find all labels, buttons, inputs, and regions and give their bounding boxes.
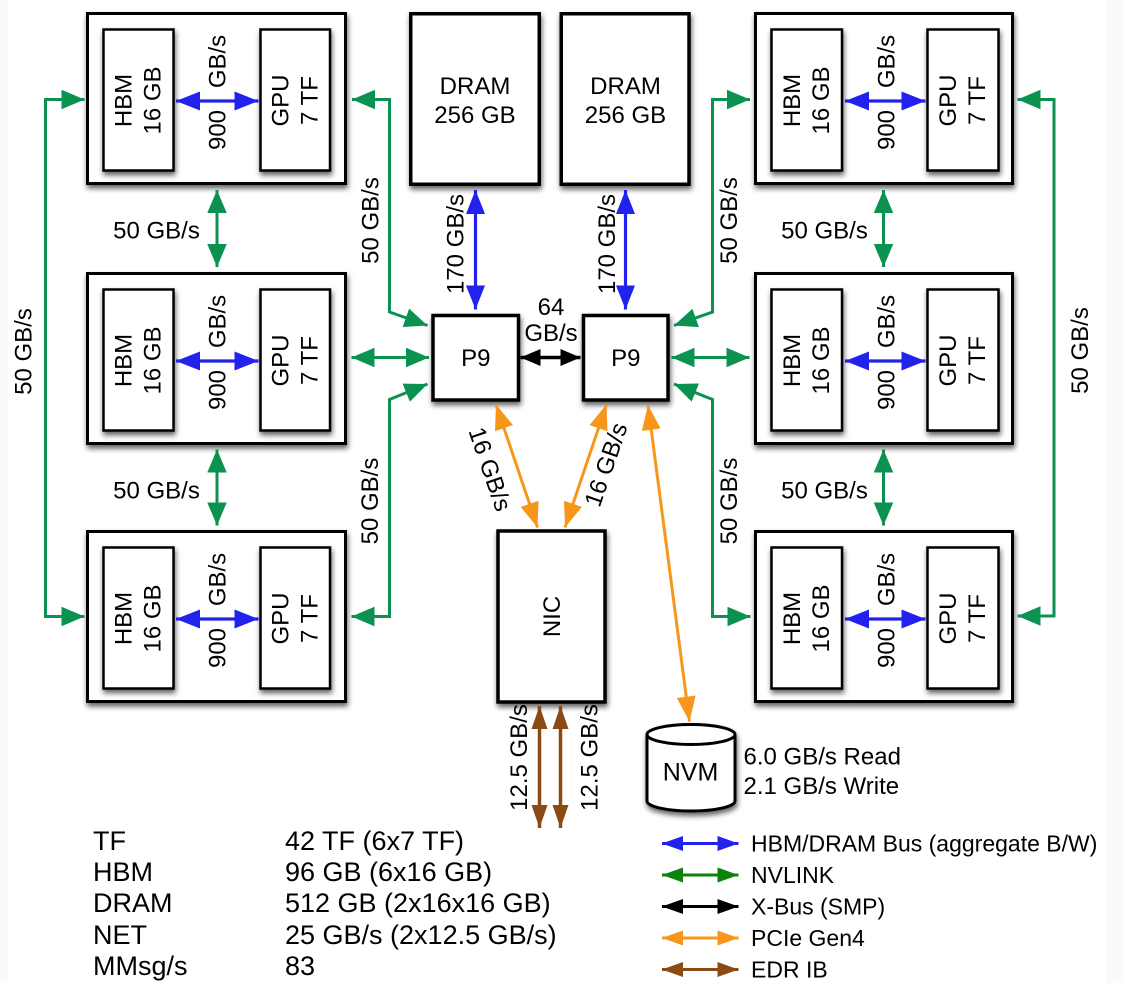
svg-text:DRAM: DRAM (93, 888, 173, 918)
svg-text:6.0 GB/s Read: 6.0 GB/s Read (744, 744, 901, 771)
svg-text:256 GB: 256 GB (585, 102, 666, 129)
svg-text:P9: P9 (461, 345, 490, 372)
svg-text:50 GB/s: 50 GB/s (716, 458, 743, 545)
svg-text:50 GB/s: 50 GB/s (357, 458, 384, 545)
svg-text:2.1 GB/s Write: 2.1 GB/s Write (744, 773, 900, 800)
svg-text:7 TF: 7 TF (296, 336, 323, 385)
svg-text:256 GB: 256 GB (434, 102, 515, 129)
svg-text:HBM: HBM (111, 334, 138, 387)
svg-text:512 GB (2x16x16 GB): 512 GB (2x16x16 GB) (285, 888, 551, 918)
svg-text:16 GB: 16 GB (140, 326, 167, 394)
svg-text:P9: P9 (611, 345, 640, 372)
svg-text:50 GB/s: 50 GB/s (781, 477, 868, 504)
svg-text:50 GB/s: 50 GB/s (716, 177, 743, 264)
svg-text:7 TF: 7 TF (296, 76, 323, 125)
svg-text:170 GB/s: 170 GB/s (594, 194, 621, 294)
svg-text:7 TF: 7 TF (296, 594, 323, 643)
svg-text:16 GB: 16 GB (140, 584, 167, 652)
svg-text:83: 83 (285, 951, 315, 981)
svg-text:7 TF: 7 TF (964, 594, 991, 643)
svg-text:HBM/DRAM Bus (aggregate B/W): HBM/DRAM Bus (aggregate B/W) (751, 831, 1097, 857)
svg-text:GB/s: GB/s (205, 35, 232, 88)
svg-text:7 TF: 7 TF (964, 336, 991, 385)
svg-text:GB/s: GB/s (524, 320, 577, 347)
svg-text:50 GB/s: 50 GB/s (358, 177, 385, 264)
svg-text:170 GB/s: 170 GB/s (443, 194, 470, 294)
svg-text:900: 900 (874, 628, 901, 668)
svg-text:GB/s: GB/s (874, 35, 901, 88)
svg-text:NET: NET (93, 920, 147, 950)
svg-text:16 GB: 16 GB (808, 326, 835, 394)
svg-text:GPU: GPU (267, 334, 294, 386)
svg-text:16 GB: 16 GB (808, 584, 835, 652)
svg-text:GPU: GPU (267, 74, 294, 126)
svg-text:12.5 GB/s: 12.5 GB/s (506, 704, 533, 811)
svg-text:900: 900 (205, 628, 232, 668)
svg-text:HBM: HBM (779, 74, 806, 127)
svg-text:X-Bus (SMP): X-Bus (SMP) (751, 894, 885, 920)
svg-text:50 GB/s: 50 GB/s (11, 308, 38, 395)
svg-text:50 GB/s: 50 GB/s (1067, 307, 1094, 394)
svg-text:GB/s: GB/s (874, 553, 901, 606)
svg-text:64: 64 (538, 294, 565, 321)
svg-text:GPU: GPU (267, 592, 294, 644)
svg-text:900: 900 (205, 370, 232, 410)
svg-text:50 GB/s: 50 GB/s (781, 218, 868, 245)
svg-text:NVM: NVM (663, 759, 719, 787)
svg-text:HBM: HBM (779, 592, 806, 645)
svg-text:96 GB (6x16 GB): 96 GB (6x16 GB) (285, 857, 492, 887)
svg-text:12.5 GB/s: 12.5 GB/s (577, 704, 604, 811)
svg-text:GPU: GPU (935, 74, 962, 126)
svg-text:TF: TF (93, 826, 126, 856)
svg-text:HBM: HBM (111, 74, 138, 127)
svg-text:PCIe Gen4: PCIe Gen4 (751, 925, 865, 951)
svg-text:MMsg/s: MMsg/s (93, 951, 188, 981)
svg-text:50 GB/s: 50 GB/s (113, 218, 200, 245)
svg-text:42 TF (6x7 TF): 42 TF (6x7 TF) (285, 826, 464, 856)
svg-text:NVLINK: NVLINK (751, 862, 835, 888)
svg-text:HBM: HBM (93, 857, 153, 887)
svg-text:GB/s: GB/s (205, 295, 232, 348)
svg-text:7 TF: 7 TF (964, 76, 991, 125)
svg-text:16 GB: 16 GB (808, 66, 835, 134)
svg-text:GPU: GPU (935, 334, 962, 386)
svg-text:DRAM: DRAM (590, 73, 661, 100)
svg-text:50 GB/s: 50 GB/s (113, 477, 200, 504)
svg-text:DRAM: DRAM (440, 73, 511, 100)
svg-text:900: 900 (205, 110, 232, 150)
svg-text:900: 900 (874, 370, 901, 410)
svg-text:GB/s: GB/s (205, 553, 232, 606)
svg-text:25 GB/s (2x12.5 GB/s): 25 GB/s (2x12.5 GB/s) (285, 920, 557, 950)
svg-text:HBM: HBM (779, 334, 806, 387)
svg-text:NIC: NIC (539, 596, 566, 637)
svg-text:900: 900 (874, 110, 901, 150)
svg-text:HBM: HBM (111, 592, 138, 645)
svg-text:EDR IB: EDR IB (751, 957, 828, 983)
svg-text:GB/s: GB/s (874, 295, 901, 348)
svg-text:16 GB: 16 GB (140, 66, 167, 134)
svg-text:GPU: GPU (935, 592, 962, 644)
